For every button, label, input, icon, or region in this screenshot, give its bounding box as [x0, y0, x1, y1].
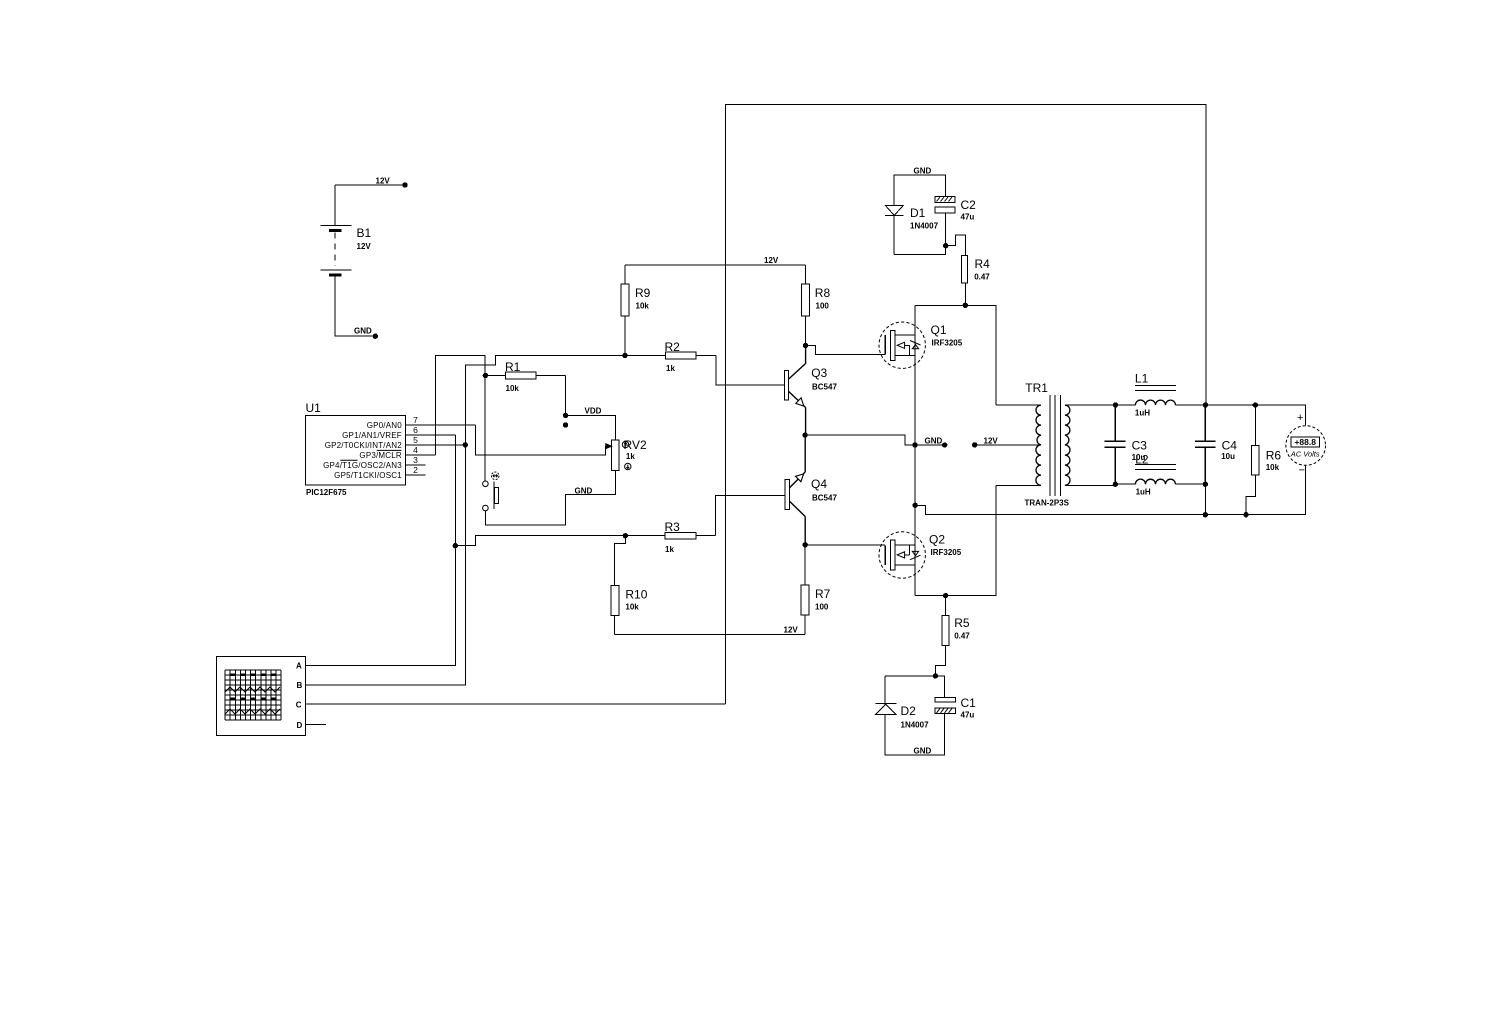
resistor R7	[801, 545, 809, 635]
wire GP1 pin6 to scope A	[305, 435, 455, 666]
wire 12V rail driver stage	[625, 264, 806, 266]
svg-text:C3: C3	[1132, 439, 1148, 453]
wire VDD to RV2 top	[566, 415, 616, 440]
svg-text:Q3: Q3	[811, 366, 827, 380]
wire output bottom rail	[915, 505, 1306, 514]
pin 6 stub	[405, 434, 455, 436]
svg-text:47u: 47u	[961, 213, 975, 222]
svg-text:Q4: Q4	[811, 477, 827, 491]
svg-text:R1: R1	[505, 360, 521, 374]
resistor R8	[802, 265, 810, 346]
svg-text:GP3/MCLR: GP3/MCLR	[359, 451, 402, 460]
wire 12V from battery	[335, 185, 405, 225]
wire 12V to transformer center tap	[975, 444, 1041, 446]
svg-text:D: D	[297, 721, 303, 730]
potentiometer RV2 actuator down	[625, 463, 631, 469]
svg-text:GP1/AN1/VREF: GP1/AN1/VREF	[342, 431, 402, 440]
svg-text:12V: 12V	[784, 626, 799, 635]
inductor L1	[1115, 385, 1205, 405]
diode D1 1N4007	[885, 205, 903, 215]
resistor R1	[485, 372, 565, 379]
capacitor C2	[935, 196, 955, 213]
wire C4 bottom to rail	[1204, 484, 1206, 515]
node 12V terminal	[402, 182, 407, 187]
svg-text:R9: R9	[635, 286, 651, 300]
wire meter minus to rail	[1246, 465, 1306, 514]
svg-text:L2: L2	[1135, 453, 1149, 467]
svg-text:R3: R3	[665, 520, 681, 534]
svg-text:R10: R10	[625, 588, 647, 602]
svg-text:GP4/T1G/OSC2/AN3: GP4/T1G/OSC2/AN3	[323, 461, 402, 470]
resistor R9	[621, 265, 629, 356]
svg-text:R6: R6	[1266, 449, 1282, 463]
pin 2 stub	[405, 474, 425, 476]
svg-text:R2: R2	[665, 340, 681, 354]
node GP2 junction	[463, 442, 468, 447]
svg-text:1uH: 1uH	[1135, 409, 1150, 418]
svg-text:PIC12F675: PIC12F675	[306, 488, 347, 497]
wire Q1 block top rail	[915, 305, 996, 405]
node secondary top junction	[1113, 402, 1118, 407]
svg-text:6: 6	[413, 425, 418, 435]
svg-text:BC547: BC547	[812, 494, 837, 503]
wire GP2 branch to R9 R2 junction	[465, 355, 625, 445]
node Q3 collector junction	[803, 343, 808, 348]
node Q4 collector junction	[803, 542, 808, 547]
svg-text:GP0/AN0: GP0/AN0	[367, 421, 403, 430]
svg-text:C2: C2	[961, 198, 977, 212]
resistor R10	[611, 536, 625, 635]
svg-text:1k: 1k	[665, 545, 674, 554]
svg-text:L1: L1	[1135, 372, 1149, 386]
node GND junction	[912, 442, 947, 447]
node R1 left junction	[483, 373, 488, 378]
node VDD	[563, 413, 568, 428]
svg-text:D2: D2	[901, 704, 917, 718]
button actuator marker	[493, 474, 498, 477]
svg-text:IRF3205: IRF3205	[932, 339, 963, 348]
transistor Q4 BC547	[785, 435, 805, 545]
svg-text:U1: U1	[306, 401, 322, 415]
svg-text:10k: 10k	[636, 302, 650, 311]
svg-text:12V: 12V	[357, 242, 372, 251]
potentiometer RV2 actuator up	[622, 441, 628, 447]
wire GP3 pin4 to R1 and button	[435, 355, 485, 481]
svg-text:+: +	[1297, 412, 1303, 424]
svg-text:1N4007: 1N4007	[910, 222, 939, 231]
overline MCLR	[377, 449, 402, 451]
svg-text:Q2: Q2	[929, 533, 945, 547]
node emitters junction	[802, 432, 807, 437]
transformer TR1 secondary winding	[1065, 405, 1116, 485]
potentiometer RV2	[612, 440, 619, 470]
wire GP2 pin5 to scope B	[305, 445, 465, 685]
node R9 R2 junction	[622, 353, 627, 358]
svg-text:0.47: 0.47	[954, 632, 970, 641]
svg-text:4: 4	[413, 445, 418, 455]
transistor Q3 BC547	[785, 346, 806, 436]
node L2 C4 bottom junction	[1203, 482, 1208, 487]
svg-text:GP5/T1CKI/OSC1: GP5/T1CKI/OSC1	[334, 471, 402, 480]
svg-text:B: B	[297, 681, 303, 690]
svg-text:47u: 47u	[961, 711, 975, 720]
node D2 C1 junction	[933, 673, 938, 678]
node R3 R10 junction	[623, 533, 628, 538]
svg-text:TRAN-2P3S: TRAN-2P3S	[1025, 499, 1070, 508]
svg-text:+88.8: +88.8	[1294, 437, 1316, 447]
node R6 top junction	[1253, 402, 1258, 407]
svg-text:0.47: 0.47	[974, 273, 990, 282]
svg-text:12V: 12V	[376, 177, 391, 186]
wire RV2 bottom to GND	[485, 470, 615, 525]
button reset	[483, 472, 499, 511]
svg-text:2: 2	[413, 465, 418, 475]
overline T1G	[340, 459, 357, 461]
svg-text:12V: 12V	[984, 437, 999, 446]
svg-text:12V: 12V	[764, 256, 779, 265]
pin 5 stub	[405, 444, 465, 446]
svg-text:3: 3	[413, 455, 418, 465]
svg-text:BC547: BC547	[812, 383, 837, 392]
svg-text:C1: C1	[961, 696, 977, 710]
svg-text:A: A	[296, 662, 302, 671]
node output mid junction	[912, 503, 917, 508]
wire 12V bottom rail	[615, 633, 806, 635]
svg-text:1k: 1k	[626, 452, 635, 461]
big loop wire top	[726, 105, 1207, 704]
node R6 bottom junction	[1243, 512, 1248, 517]
svg-text:GND: GND	[925, 437, 943, 446]
resistor R4	[946, 235, 968, 305]
svg-text:IRF3205: IRF3205	[931, 548, 962, 557]
svg-text:GND: GND	[575, 487, 593, 496]
svg-text:100: 100	[815, 603, 829, 612]
IC U1 PIC12F675	[306, 416, 406, 485]
node L1 C4 junction	[1203, 402, 1208, 407]
svg-text:5: 5	[413, 435, 418, 445]
svg-text:GP2/T0CKI/INT/AN2: GP2/T0CKI/INT/AN2	[325, 441, 403, 450]
inductor L2	[1115, 465, 1205, 485]
resistor R3	[625, 532, 715, 539]
wire D1 C2 box	[894, 175, 946, 255]
svg-text:100: 100	[816, 302, 830, 311]
svg-text:B1: B1	[357, 226, 372, 240]
wire battery to GND	[335, 277, 375, 336]
pin 3 stub	[405, 464, 425, 466]
node 12V center tap terminal	[972, 442, 977, 447]
node rail C4 junction	[1203, 512, 1208, 517]
wire GND stub	[915, 444, 945, 446]
svg-text:R5: R5	[954, 616, 970, 630]
svg-text:10k: 10k	[506, 384, 520, 393]
resistor R2	[625, 352, 716, 359]
MOSFET Q1 IRF3205	[879, 322, 925, 368]
svg-text:TR1: TR1	[1025, 381, 1048, 395]
wire scope D stub	[305, 724, 326, 726]
svg-text:RV2: RV2	[624, 438, 647, 452]
wire output top to meter	[1205, 405, 1305, 426]
svg-text:GND: GND	[914, 747, 932, 756]
node secondary bottom junction	[1113, 482, 1118, 487]
svg-text:R8: R8	[815, 286, 831, 300]
wire R3 to Q4 base	[715, 495, 785, 535]
battery B1	[320, 225, 351, 275]
svg-text:R7: R7	[815, 587, 831, 601]
pin 4 stub	[405, 454, 435, 456]
MOSFET Q2 IRF3205	[879, 532, 925, 578]
potentiometer RV2 wiper arrow	[606, 444, 612, 449]
wire R2 to Q3 base	[716, 356, 785, 385]
svg-text:Q1: Q1	[931, 323, 947, 337]
wire Q4 collector to Q2 gate	[805, 544, 885, 546]
svg-text:1N4007: 1N4007	[901, 721, 930, 730]
voltmeter AC	[1286, 426, 1326, 466]
svg-text:−: −	[1299, 465, 1305, 477]
svg-text:1k: 1k	[666, 364, 675, 373]
svg-text:GND: GND	[354, 327, 372, 336]
svg-text:10k: 10k	[625, 603, 639, 612]
svg-text:VDD: VDD	[585, 407, 602, 416]
node GP1 junction	[453, 543, 458, 548]
svg-text:7: 7	[413, 415, 418, 425]
node C2 D1 junction	[943, 243, 948, 248]
oscilloscope	[216, 656, 305, 735]
svg-text:C4: C4	[1222, 439, 1238, 453]
diode D2 1N4007	[875, 704, 896, 715]
capacitor C4	[1195, 405, 1216, 484]
transformer TR1 primary winding	[996, 405, 1041, 485]
capacitor C1	[935, 698, 956, 714]
svg-text:10k: 10k	[1266, 463, 1280, 472]
wire GP0 pin7 to RV2 wiper	[476, 425, 606, 455]
svg-text:C: C	[296, 701, 302, 710]
wire D2 C1 box	[885, 676, 944, 755]
node R5 top junction	[943, 593, 948, 598]
resistor R6	[1246, 405, 1259, 515]
svg-text:10u: 10u	[1221, 452, 1235, 461]
wire Q3 collector to Q1 gate	[806, 346, 885, 355]
svg-text:1uH: 1uH	[1136, 488, 1151, 497]
wire scope C	[305, 703, 725, 705]
svg-text:R4: R4	[975, 257, 991, 271]
pin 7 stub	[405, 424, 475, 426]
svg-text:D1: D1	[910, 206, 926, 220]
node R4 bottom junction	[963, 303, 968, 308]
svg-text:GND: GND	[914, 167, 932, 176]
capacitor C3	[1104, 405, 1125, 484]
wire R1 right to VDD node	[565, 376, 567, 416]
wire Q1 Q2 channel vertical	[914, 305, 916, 595]
wire emitters to GND node	[805, 435, 915, 445]
wire Q2 block bottom rail	[915, 485, 996, 595]
wire GP1 branch to R3	[455, 536, 625, 546]
svg-text:AC Volts: AC Volts	[1290, 450, 1320, 459]
transformer TR1 core	[1050, 395, 1060, 496]
node GND terminal	[373, 334, 378, 339]
resistor R5	[935, 596, 949, 676]
